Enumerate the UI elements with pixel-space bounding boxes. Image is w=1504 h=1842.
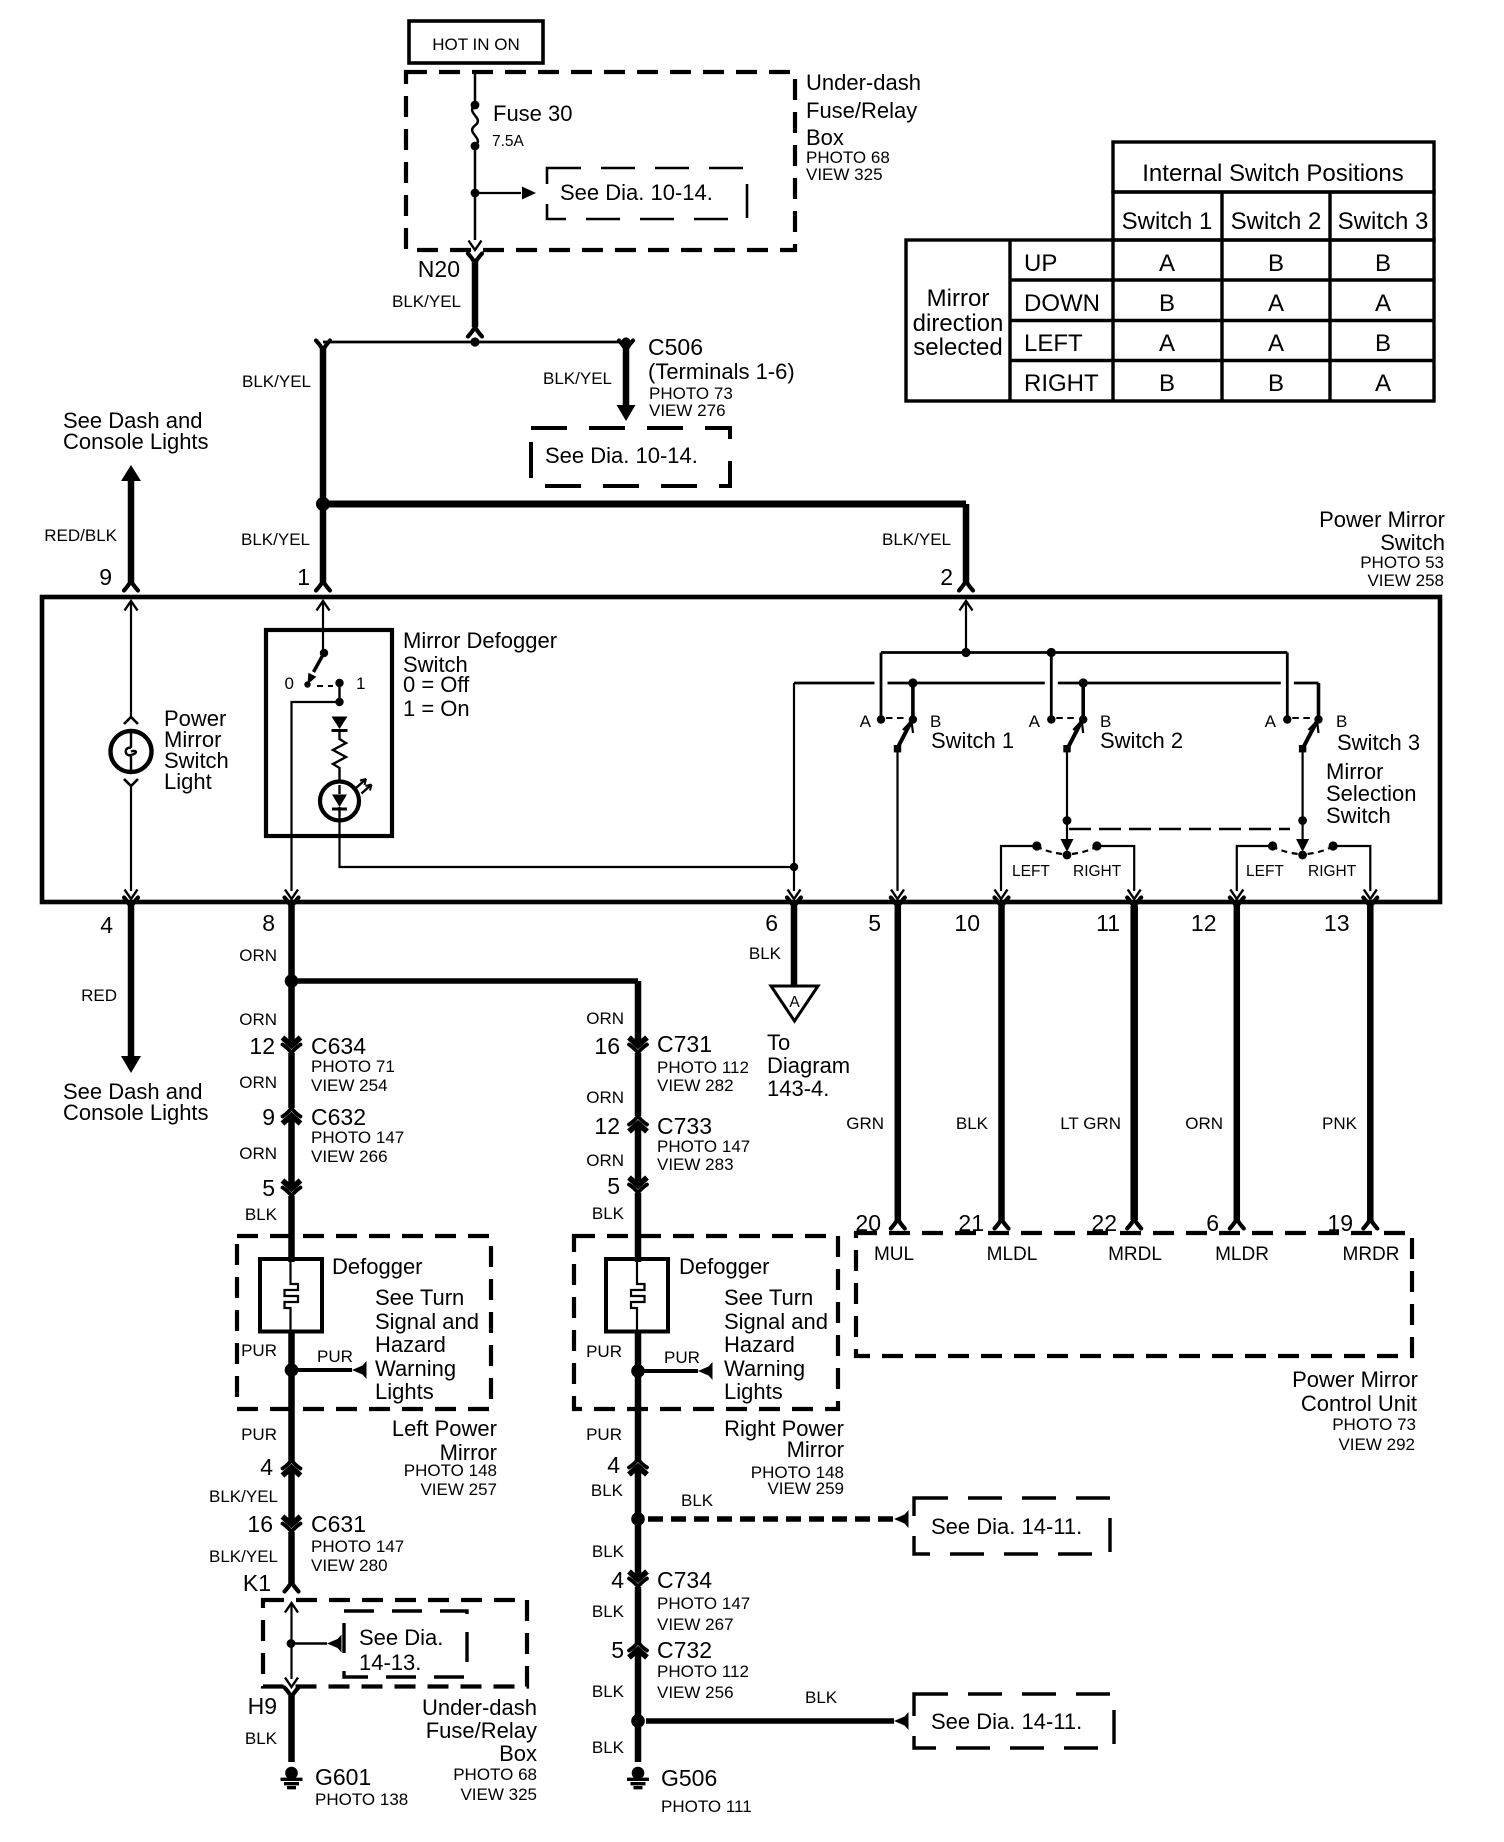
See Dash and Console Lights (top) [63,408,209,454]
svg-text:A: A [1268,330,1284,357]
svg-text:selected: selected [913,334,1002,361]
svg-text:Signal and: Signal and [375,1309,479,1334]
svg-text:Switch: Switch [1326,803,1391,828]
See Dia. 14-11. box (upper) [914,1498,1110,1554]
switch 1 [877,653,917,892]
svg-text:BLK/YEL: BLK/YEL [543,369,612,388]
selector dashed levers sw3 [1276,848,1330,854]
solid arrow into See Dia box [617,405,636,421]
junction dot [631,1512,645,1526]
fork left branch [316,341,330,351]
Power Mirror Control Unit label [1292,1367,1418,1454]
svg-text:2: 2 [940,564,953,590]
svg-text:PHOTO 73: PHOTO 73 [1332,1415,1416,1434]
wire BLK [635,1587,642,1643]
RIGHT contact sw3 [1329,841,1338,850]
junction sw2A/bus1 [1047,648,1056,657]
svg-text:0: 0 [285,674,294,693]
wire pin 6 inside box [793,683,795,891]
pin 19 fork [1363,1219,1377,1229]
svg-text:BLK/YEL: BLK/YEL [209,1547,278,1566]
stub to See Dia 14-13 [291,1642,327,1644]
svg-text:PHOTO 138: PHOTO 138 [315,1790,408,1809]
junction dot [335,698,343,706]
wire BLK pin 6 [791,906,798,985]
svg-text:VIEW 280: VIEW 280 [311,1556,388,1575]
svg-text:PNK: PNK [1322,1114,1358,1133]
fork at pin 1 [316,581,330,591]
wire inside fuse box with arrow [285,1603,298,1679]
svg-text:Signal and: Signal and [724,1309,828,1334]
fork C506 branch [619,341,633,351]
node N20 [418,254,482,283]
pin 12 fork [1230,898,1244,908]
svg-text:VIEW 258: VIEW 258 [1367,571,1444,590]
svg-text:4: 4 [611,1567,624,1593]
svg-text:5: 5 [868,910,881,936]
svg-text:Switch: Switch [1380,530,1445,555]
flare arrow [327,1635,342,1653]
To Diagram 143-4. label [767,1030,850,1101]
svg-text:RIGHT: RIGHT [1308,863,1357,880]
wire BLK [288,1196,295,1262]
svg-text:direction: direction [913,310,1004,337]
svg-text:ORN: ORN [586,1009,624,1028]
svg-text:0 = Off: 0 = Off [403,672,470,697]
junction sw1B/bus2 [908,678,917,687]
connector C732 pin 5 [629,1642,647,1659]
svg-text:A: A [860,712,872,731]
svg-text:Hazard: Hazard [375,1332,446,1357]
connector C733 pin 12 [629,1116,647,1133]
svg-text:Defogger: Defogger [679,1254,770,1279]
svg-text:PHOTO 148: PHOTO 148 [404,1461,497,1480]
svg-text:VIEW 259: VIEW 259 [767,1479,844,1498]
bus 2 wire (with crossing gaps) [794,682,1319,685]
fork at wire end [468,327,482,337]
Under-dash Fuse/Relay Box label (bottom) [422,1695,537,1804]
ground G601 [281,1767,303,1788]
wire from box top into fuse [474,74,477,104]
diode D1 [332,717,348,731]
junction on fuse wire [471,189,480,198]
wire BLK/YEL [288,1477,295,1515]
svg-text:Power Mirror: Power Mirror [1292,1367,1418,1392]
svg-text:B: B [1336,712,1347,731]
svg-text:PUR: PUR [586,1342,622,1361]
C631 label [311,1511,404,1575]
svg-text:BLK: BLK [592,1602,625,1621]
mirror defogger switch box [266,630,392,836]
svg-text:LEFT: LEFT [1012,863,1050,880]
svg-text:B: B [1159,290,1175,317]
arrow down at pin 13 [1364,890,1377,900]
selector pivot dot sw2 [1063,851,1072,860]
G506 label [661,1765,752,1816]
svg-text:BLK/YEL: BLK/YEL [392,292,461,311]
right power mirror dashed box [574,1236,838,1409]
svg-text:PUR: PUR [586,1425,622,1444]
svg-text:20: 20 [855,1210,881,1236]
svg-text:4: 4 [260,1454,273,1480]
wire from LED to pin 6 net [340,816,795,867]
wire BLK to See Dia 14-11 lower [646,1718,894,1723]
svg-text:9: 9 [99,564,112,590]
dashed lever travel [317,685,333,687]
See Dia. 10-14. box (in fuse box) [547,168,747,219]
junction sw2 selector [1063,816,1072,825]
connector pin 5 right mirror [629,1176,647,1193]
junction dot at pin1 wire [316,497,330,511]
svg-text:12: 12 [594,1113,620,1139]
selector pivot dot sw3 [1298,851,1307,860]
svg-text:Switch 3: Switch 3 [1338,208,1429,235]
control unit dashed box [856,1233,1412,1356]
arrow down at pin 10 [995,890,1008,900]
connector C506 label [648,334,795,420]
C632 label [311,1104,404,1166]
LEFT contact sw3 [1268,841,1277,850]
svg-text:BLK: BLK [749,944,782,963]
svg-text:MRDR: MRDR [1343,1244,1400,1265]
svg-text:4: 4 [607,1452,620,1478]
svg-text:Lights: Lights [724,1379,783,1404]
svg-text:13: 13 [1324,910,1350,936]
svg-text:Box: Box [499,1741,537,1766]
lamp chevron top [124,717,138,724]
svg-text:A: A [1159,250,1175,277]
svg-text:B: B [1268,250,1284,277]
svg-text:Hazard: Hazard [724,1332,795,1357]
wire PUR stub to turn signal [644,1369,698,1373]
connector C632 pin 9 [283,1108,301,1125]
RIGHT contact sw2 [1092,841,1101,850]
arrow into selector sw3 [1296,821,1309,853]
Under-dash Fuse/Relay Box label [806,70,921,184]
svg-text:See Dia. 14-11.: See Dia. 14-11. [931,1709,1082,1734]
arrow down at pin 11 [1128,890,1141,900]
svg-text:GRN: GRN [846,1114,884,1133]
wire BLK [635,1519,642,1570]
svg-text:MLDR: MLDR [1215,1244,1269,1265]
arrow down at pin 6 [788,890,801,900]
switch 2 [1047,653,1087,821]
svg-text:BLK: BLK [956,1114,989,1133]
svg-text:Lights: Lights [375,1379,434,1404]
svg-text:C732: C732 [657,1637,712,1663]
svg-text:See Dia. 14-11.: See Dia. 14-11. [931,1514,1082,1539]
pin 13 fork [1363,898,1377,908]
connector C631 pin 16 [283,1515,301,1532]
svg-text:VIEW 256: VIEW 256 [657,1683,734,1702]
svg-text:6: 6 [765,910,778,936]
connector pin 4 left mirror [283,1460,301,1477]
flare arrow [894,1510,909,1528]
svg-text:MUL: MUL [874,1244,914,1265]
node K1 fork [285,1582,299,1592]
svg-text:VIEW 267: VIEW 267 [657,1615,734,1634]
svg-text:Fuse/Relay: Fuse/Relay [426,1718,537,1743]
wire selector right to pin 11 [1097,846,1134,891]
svg-text:See Dia.: See Dia. [359,1625,443,1650]
svg-text:10: 10 [954,910,980,936]
svg-text:C632: C632 [311,1104,366,1130]
svg-text:5: 5 [262,1175,275,1201]
arrow down at pin 8 [285,890,298,900]
svg-text:12: 12 [249,1033,275,1059]
svg-text:Switch 2: Switch 2 [1100,728,1183,753]
svg-text:PHOTO 147: PHOTO 147 [657,1594,750,1613]
svg-text:8: 8 [262,910,275,936]
svg-text:H9: H9 [248,1693,277,1719]
svg-text:VIEW 325: VIEW 325 [460,1785,537,1804]
svg-text:K1: K1 [243,1570,271,1596]
svg-text:Mirror Defogger: Mirror Defogger [403,628,557,653]
svg-text:G506: G506 [661,1765,717,1791]
svg-text:RED/BLK: RED/BLK [44,526,117,545]
junction dot right [621,337,630,346]
bus 1 wire [881,651,1287,654]
power mirror switch box [42,597,1440,902]
wire from lamp to pin 4 [130,786,132,891]
svg-text:PHOTO 147: PHOTO 147 [311,1537,404,1556]
svg-text:MRDL: MRDL [1108,1244,1162,1265]
svg-text:B: B [1375,330,1391,357]
svg-text:BLK: BLK [245,1205,278,1224]
wire BLK pin 10 [998,906,1005,1220]
svg-text:PHOTO 71: PHOTO 71 [311,1057,395,1076]
svg-text:VIEW 257: VIEW 257 [420,1480,497,1499]
fork at pin 2 [959,581,973,591]
wire BLK/YEL C506 drop [623,347,630,405]
flare arrow [352,1361,367,1379]
See Dia. 14-13. box [344,1611,467,1677]
svg-text:To: To [767,1030,790,1055]
svg-text:BLK/YEL: BLK/YEL [882,530,951,549]
connector C731 pin 16 [629,1036,647,1053]
wire BLK/YEL left branch down to junction [320,347,327,500]
svg-text:VIEW 276: VIEW 276 [649,401,726,420]
arrow down at H9 [285,1678,298,1688]
svg-text:11: 11 [1096,910,1120,936]
Power Mirror Switch Light label [164,706,229,794]
svg-text:6: 6 [1206,1210,1219,1236]
wire PUR stub to turn signal [298,1368,352,1372]
G601 label [315,1764,408,1809]
svg-text:C634: C634 [311,1033,366,1059]
svg-text:A: A [789,994,800,1011]
svg-text:VIEW 266: VIEW 266 [311,1147,388,1166]
wire from contact to junction [338,683,340,702]
wire PNK pin 13 [1367,906,1374,1220]
pin 11 fork [1127,898,1141,908]
wire ORN to right branch [292,978,639,984]
svg-text:Console Lights: Console Lights [63,429,209,454]
svg-text:22: 22 [1091,1210,1117,1236]
pin 6 fork [1230,1219,1244,1229]
C734 label [657,1567,750,1634]
arrow up to dash lights [121,465,141,481]
svg-text:Box: Box [806,125,844,150]
svg-text:BLK: BLK [245,1729,278,1748]
svg-text:LEFT: LEFT [1246,863,1284,880]
svg-text:1: 1 [356,674,365,693]
flare arrow [894,1712,909,1730]
dashed wire BLK to See Dia 14-11 [648,1516,894,1521]
svg-text:PUR: PUR [317,1347,353,1366]
svg-text:PHOTO 147: PHOTO 147 [311,1128,404,1147]
C634 label [311,1033,395,1095]
wire RED/BLK [128,479,135,582]
svg-text:PUR: PUR [241,1341,277,1360]
pin 4 fork [124,898,138,908]
svg-text:Power Mirror: Power Mirror [1319,507,1445,532]
svg-text:PHOTO 112: PHOTO 112 [657,1662,749,1681]
arrow down at pin 4 [125,890,138,900]
svg-text:See Dia. 10-14.: See Dia. 10-14. [560,180,713,205]
svg-text:ORN: ORN [239,1010,277,1029]
LEFT contact sw2 [1032,841,1041,850]
svg-text:1 = On: 1 = On [403,696,470,721]
svg-text:21: 21 [958,1210,984,1236]
wire selector right to pin 13 [1333,846,1370,891]
svg-text:B: B [1375,250,1391,277]
pin 9 internal wire with arrow [125,601,138,717]
under-dash fuse/relay dashed box (bottom) [263,1600,527,1687]
arrow down at pin 5 [891,890,904,900]
See Dash and Console Lights (bottom) [63,1079,209,1125]
wire BLK [635,1193,642,1262]
svg-text:16: 16 [594,1033,620,1059]
See Dia. 10-14. box (second) [531,428,730,486]
svg-text:BLK: BLK [592,1542,625,1561]
svg-text:LEFT: LEFT [1024,330,1083,357]
pin 6 fork [787,898,801,908]
connector C734 pin 4 [629,1570,647,1587]
arrow at N20 boundary [469,241,482,251]
junction dot [285,974,299,988]
svg-text:VIEW 282: VIEW 282 [657,1076,734,1095]
defogger switch lever [304,649,328,688]
svg-text:C631: C631 [311,1511,366,1537]
thick wire to pin 2 [323,501,966,508]
svg-text:A: A [1375,290,1391,317]
pin 22 fork [1127,1219,1141,1229]
pin 5 fork [891,898,905,908]
svg-text:PHOTO 53: PHOTO 53 [1360,553,1444,572]
svg-text:Mirror: Mirror [927,285,990,312]
svg-text:Warning: Warning [375,1356,456,1381]
svg-text:A: A [1159,330,1175,357]
svg-text:Defogger: Defogger [332,1254,423,1279]
pin 20 fork [891,1219,905,1229]
pin 21 fork [995,1219,1009,1229]
triangle A off-page symbol [771,986,818,1021]
svg-text:Fuse 30: Fuse 30 [493,101,573,126]
wire selector left to pin 10 [1001,846,1037,891]
svg-text:A: A [1265,712,1277,731]
svg-text:Internal Switch Positions: Internal Switch Positions [1142,160,1403,187]
Mirror Selection Switch label [1326,759,1417,828]
C733 label [657,1113,750,1174]
lamp Power Mirror Switch Light [111,731,152,772]
See Turn Signal and Hazard Warning Lights label [375,1285,479,1404]
junction dot [631,1364,645,1378]
svg-text:UP: UP [1024,250,1057,277]
svg-text:C734: C734 [657,1567,712,1593]
svg-text:C733: C733 [657,1113,712,1139]
table Internal Switch Positions [906,142,1434,401]
resistor R1 [333,731,346,782]
svg-text:See Turn: See Turn [724,1285,813,1310]
svg-text:BLK/YEL: BLK/YEL [242,372,311,391]
junction LED wire / pin6 wire [790,863,798,871]
node H9 fork [285,1688,299,1698]
arrow down at pin 12 [1230,890,1243,900]
svg-text:B: B [1159,370,1175,397]
wire BLK/YEL down to pin 1 [320,504,327,582]
contact 1 dot [335,679,343,687]
svg-text:ORN: ORN [239,1073,277,1092]
fork at pin 9 [124,581,138,591]
svg-text:Switch 1: Switch 1 [1122,208,1213,235]
svg-text:VIEW 325: VIEW 325 [806,165,883,184]
junction dot [470,337,479,346]
svg-text:5: 5 [607,1173,620,1199]
left power mirror dashed box [237,1236,491,1409]
pin 2 internal wire with arrow [960,601,973,653]
svg-text:N20: N20 [418,256,460,282]
Under-dash Fuse/Relay Box (dashed) [406,72,795,250]
junction pin2/bus1 [961,648,970,657]
svg-text:1: 1 [297,564,310,590]
junction dot [287,1639,296,1648]
defogger element right [606,1259,668,1332]
svg-text:19: 19 [1327,1210,1353,1236]
Left Power Mirror label [392,1416,497,1499]
wire PUR below defogger [635,1331,642,1460]
svg-text:Warning: Warning [724,1356,805,1381]
pin 8 fork [285,898,299,908]
svg-text:Switch 2: Switch 2 [1231,208,1322,235]
wire BLK/YEL [288,1532,295,1583]
svg-text:14-13.: 14-13. [359,1650,421,1675]
svg-text:ORN: ORN [1185,1114,1223,1133]
svg-text:Under-dash: Under-dash [422,1695,537,1720]
svg-text:MLDL: MLDL [987,1244,1038,1265]
wire ORN pin 12 [1234,906,1241,1220]
connector C634 pin 12 [283,1036,301,1053]
svg-text:Diagram: Diagram [767,1053,850,1078]
svg-text:16: 16 [247,1511,273,1537]
wire BLK [635,1659,642,1721]
svg-text:PHOTO 112: PHOTO 112 [657,1058,749,1077]
svg-text:C731: C731 [657,1031,712,1057]
flare arrow [698,1362,713,1380]
svg-text:Switch 1: Switch 1 [931,728,1014,753]
svg-text:BLK/YEL: BLK/YEL [209,1487,278,1506]
svg-text:ORN: ORN [586,1151,624,1170]
switch 3 [1283,653,1323,821]
svg-text:BLK: BLK [592,1682,625,1701]
Right Power Mirror label [724,1416,844,1498]
svg-text:PUR: PUR [241,1425,277,1444]
svg-text:Fuse/Relay: Fuse/Relay [806,98,917,123]
wire BLK to G506 [635,1721,642,1762]
svg-text:RIGHT: RIGHT [1024,370,1099,397]
svg-text:A: A [1268,290,1284,317]
svg-text:Mirror: Mirror [787,1437,844,1462]
